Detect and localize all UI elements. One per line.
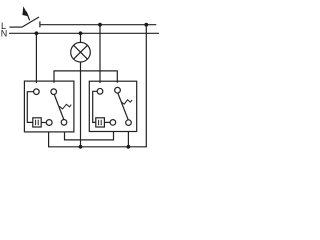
svg-text:N: N bbox=[1, 28, 8, 38]
